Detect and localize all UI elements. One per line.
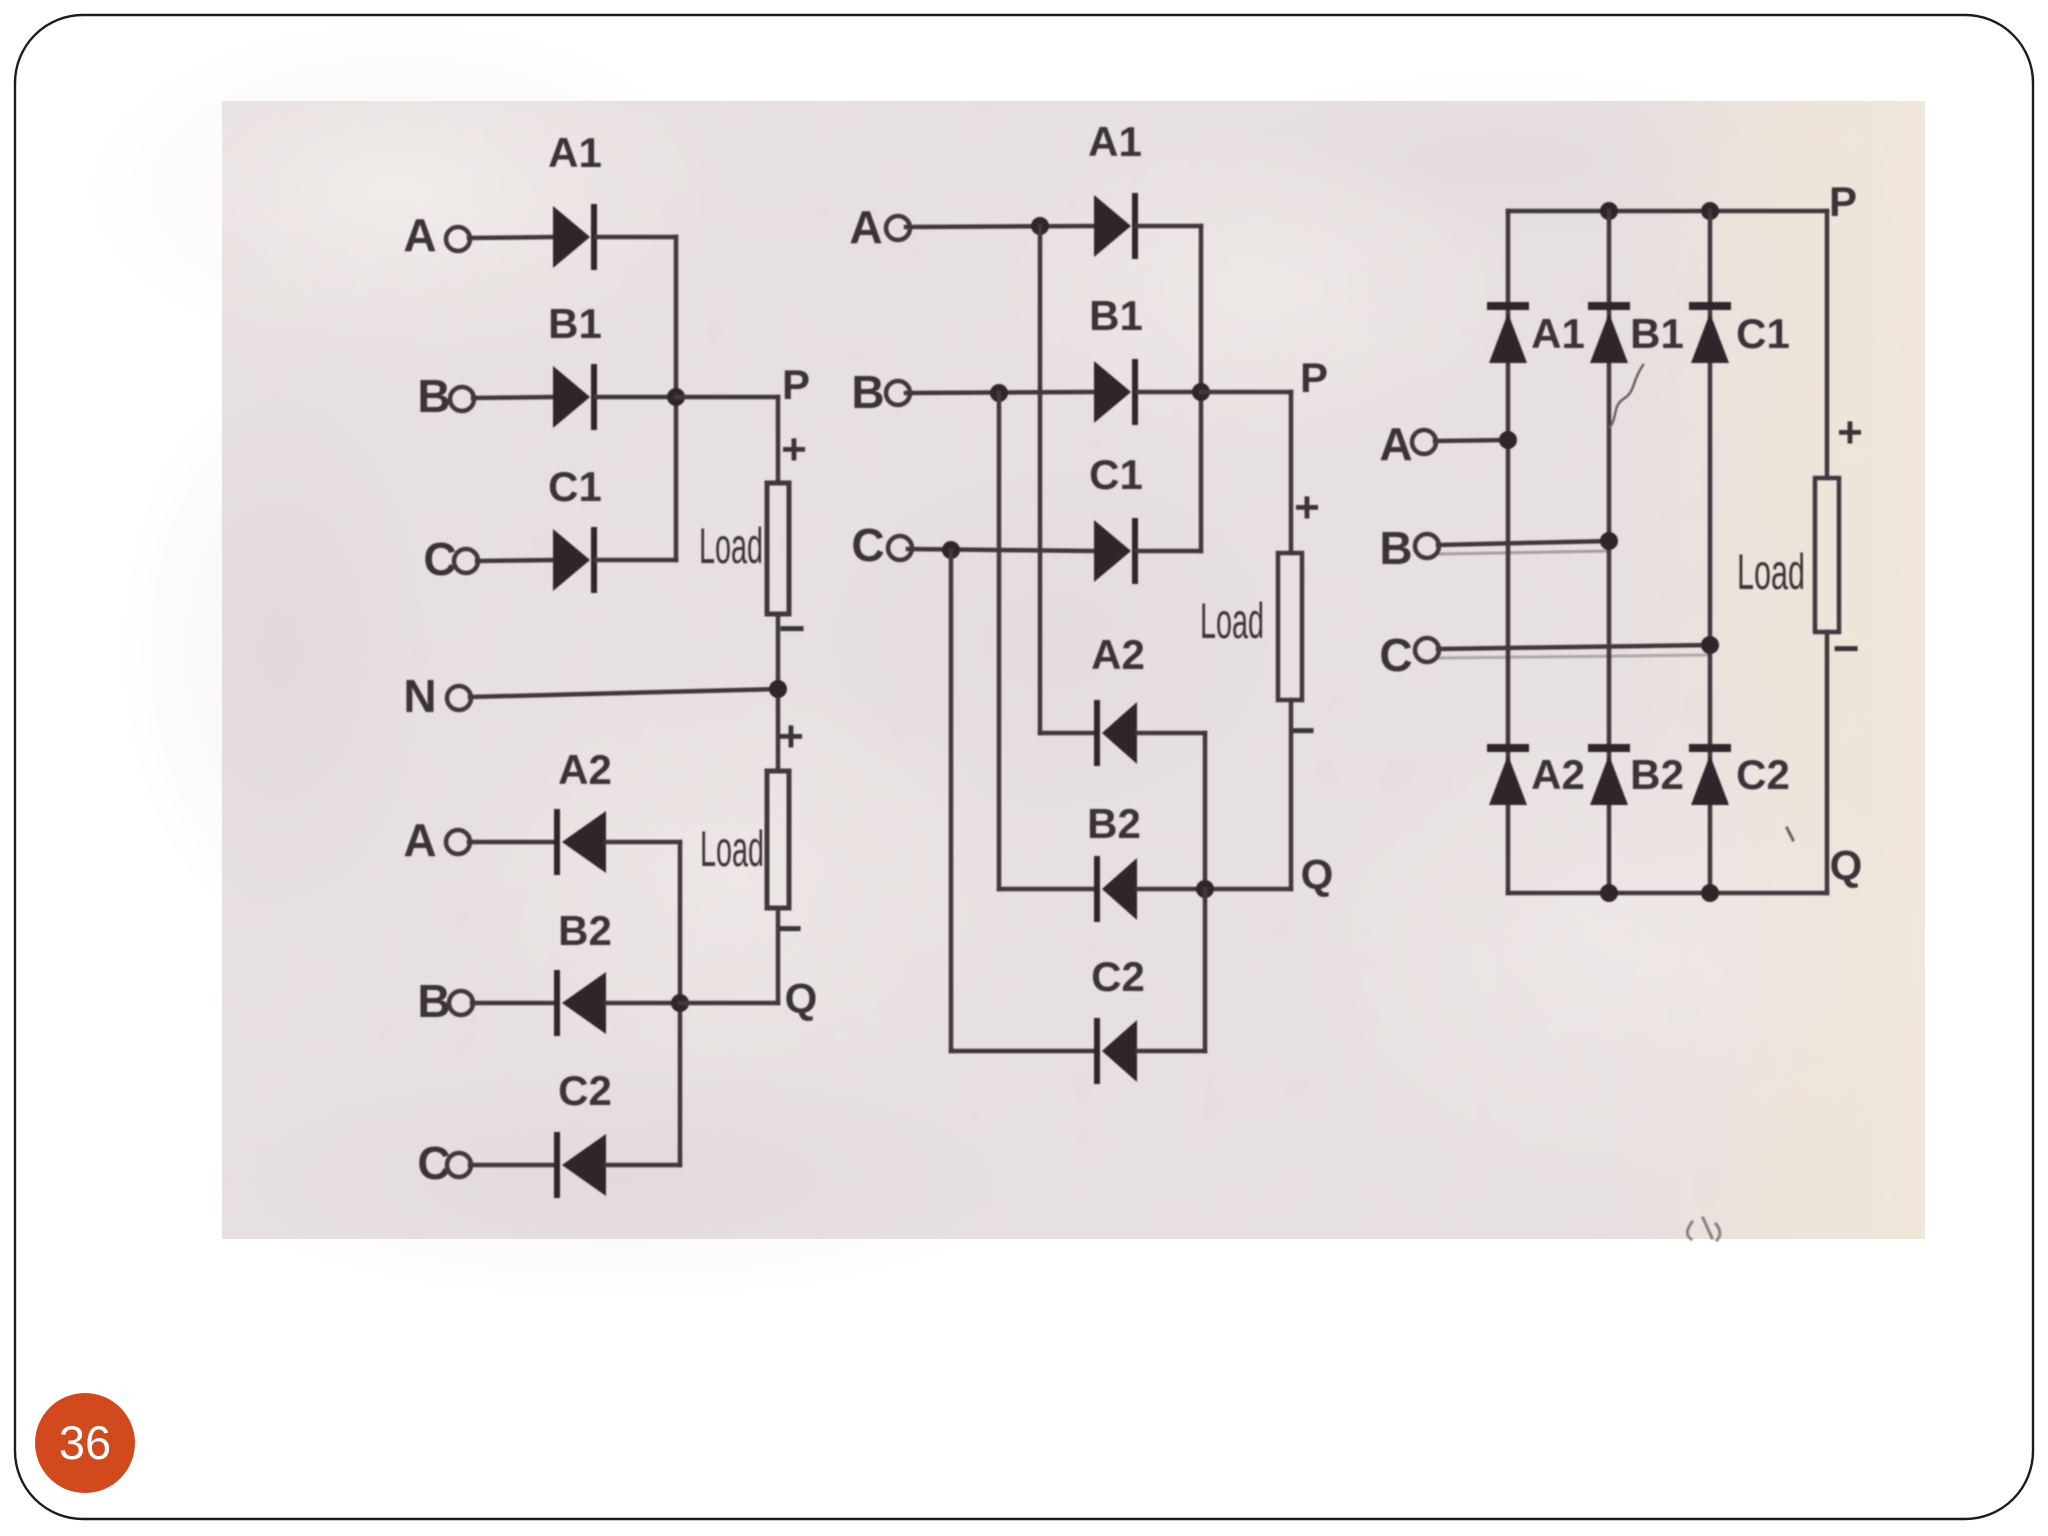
- svg-text:B: B: [1379, 522, 1412, 574]
- minus label (load 2): [776, 902, 803, 954]
- label A1 (right): [1531, 310, 1585, 357]
- svg-text:B: B: [417, 975, 450, 1027]
- label C1 (right): [1736, 310, 1790, 357]
- wire load bottom to bottom bus (right): [1825, 632, 1830, 893]
- svg-text:A: A: [403, 209, 436, 261]
- wire C2 anode to bus: [606, 1163, 680, 1168]
- svg-text:+: +: [778, 712, 804, 761]
- node Q label (middle): [1301, 851, 1334, 898]
- svg-text:−: −: [1833, 622, 1860, 674]
- wire B to diode B1: [473, 397, 553, 398]
- terminal A circle (right): [1412, 430, 1436, 454]
- svg-text:A: A: [1379, 418, 1412, 470]
- diode C1 (right): [1689, 302, 1731, 363]
- svg-text:+: +: [781, 425, 807, 474]
- svg-text:P: P: [1300, 354, 1328, 401]
- load 2 (lower): [767, 771, 789, 908]
- svg-text:C1: C1: [1089, 451, 1143, 498]
- diode C2: [554, 1132, 606, 1198]
- diode B1 (right): [1588, 302, 1630, 363]
- junction top bus dot C: [1701, 202, 1719, 220]
- diode B2 (right): [1588, 744, 1630, 805]
- wire C to column C: [1438, 645, 1710, 649]
- svg-text:Load: Load: [700, 821, 764, 877]
- wire C2 anode right (middle): [1137, 1049, 1205, 1054]
- node B (left, bottom group): [417, 975, 450, 1027]
- diode B2: [554, 970, 606, 1036]
- junction top bus dot B: [1600, 202, 1618, 220]
- plus label (load 1): [781, 425, 807, 474]
- wire P bus (middle): [1199, 226, 1204, 551]
- diode C1 (middle): [1094, 518, 1138, 584]
- node P label (middle): [1300, 354, 1328, 401]
- junction B branch dot: [990, 384, 1008, 402]
- svg-text:+: +: [1294, 483, 1320, 532]
- svg-text:C2: C2: [1736, 751, 1790, 798]
- terminal C circle: [888, 536, 912, 560]
- terminal B2 circle: [449, 991, 473, 1015]
- svg-text:A2: A2: [558, 746, 612, 793]
- wire P corner down to load 1: [776, 397, 781, 483]
- terminal B circle: [886, 381, 910, 405]
- svg-text:A1: A1: [1531, 310, 1585, 357]
- node A (left, top group): [403, 209, 436, 261]
- diode A1 (right): [1487, 302, 1529, 363]
- terminal N circle: [447, 686, 471, 710]
- node B (middle): [851, 366, 884, 418]
- svg-text:B2: B2: [1087, 800, 1141, 847]
- page number badge: [35, 1393, 135, 1493]
- wire B branch to diode B2 (middle): [999, 887, 1094, 892]
- wire C2 anode up to Q bus (middle): [1203, 889, 1208, 1051]
- junction P-bus dot: [667, 388, 685, 406]
- label B1 (right): [1630, 310, 1684, 357]
- svg-text:+: +: [1837, 408, 1863, 457]
- diode A2: [554, 809, 606, 875]
- wire C to diode C1: [477, 560, 553, 561]
- wire P bus to P corner (middle): [1201, 390, 1291, 395]
- wire A2 anode right (middle): [1137, 731, 1205, 736]
- diode A1 (middle): [1094, 193, 1138, 259]
- label B2 (middle): [1087, 800, 1141, 847]
- svg-text:Load: Load: [1200, 593, 1264, 649]
- svg-text:B2: B2: [1630, 751, 1684, 798]
- svg-text:P: P: [1829, 178, 1857, 225]
- wire P corner to load (middle): [1289, 392, 1294, 553]
- svg-text:C: C: [851, 519, 884, 571]
- node P label (right): [1829, 178, 1857, 225]
- wire A to diode A2: [469, 840, 554, 845]
- label Load (middle): [1200, 593, 1264, 649]
- svg-text:A1: A1: [1088, 118, 1142, 165]
- minus label (middle load): [1289, 704, 1316, 756]
- svg-text:36: 36: [59, 1416, 111, 1469]
- junction Q bus dot (middle): [1196, 880, 1214, 898]
- svg-text:Q: Q: [1301, 851, 1334, 898]
- wire Q corner to Q bus (middle): [1205, 887, 1291, 892]
- wire B1 cathode to P bus: [1137, 390, 1201, 395]
- svg-text:A2: A2: [1531, 751, 1585, 798]
- label Load (upper): [699, 518, 763, 574]
- wire column C (right): [1708, 211, 1713, 893]
- minus label (right load): [1833, 622, 1860, 674]
- label C2 (middle): [1091, 953, 1145, 1000]
- wire Q bus to Q corner: [680, 1001, 778, 1006]
- label A1: [548, 129, 602, 176]
- wire B1 cathode to bus: [596, 395, 676, 400]
- svg-text:B1: B1: [548, 300, 602, 347]
- wire column B (right): [1607, 211, 1612, 893]
- wire bottom bus (right): [1508, 891, 1827, 896]
- svg-text:B: B: [851, 366, 884, 418]
- scan figure mark at photo bottom: [1687, 1218, 1720, 1240]
- node Q label (right): [1830, 842, 1863, 889]
- svg-text:B: B: [417, 370, 450, 422]
- diode A2 (middle): [1094, 700, 1137, 766]
- svg-text:Load: Load: [699, 518, 763, 574]
- wire B to column B: [1438, 541, 1609, 545]
- wire A1 cathode to bus: [596, 235, 676, 240]
- wire cathode bus (top group): [674, 237, 679, 560]
- node A (right): [1379, 418, 1412, 470]
- scan tick mark below C2: [1787, 828, 1793, 840]
- svg-text:C1: C1: [1736, 310, 1790, 357]
- wire load1 bottom to load2 top: [776, 614, 781, 771]
- wire A to diode A1: [906, 226, 1094, 227]
- wire B branch down (middle): [997, 393, 1002, 889]
- label A1 (middle): [1088, 118, 1142, 165]
- svg-text:Q: Q: [1830, 842, 1863, 889]
- label A2 (right): [1531, 751, 1585, 798]
- plus label (load 2): [778, 712, 804, 761]
- wire B2 anode to Q bus (middle): [1137, 887, 1205, 892]
- junction C branch dot: [942, 541, 960, 559]
- wire A branch down (middle): [1038, 226, 1043, 733]
- node C (left, top group): [423, 533, 456, 585]
- diode A1: [553, 204, 597, 270]
- svg-text:Q: Q: [785, 975, 818, 1022]
- junction N dot: [769, 680, 787, 698]
- wire top bus (right): [1508, 209, 1827, 214]
- wire B to diode B2: [472, 1001, 554, 1006]
- svg-text:Load: Load: [1737, 544, 1805, 600]
- scanned photo background: [80, 20, 1940, 1300]
- terminal A circle: [446, 227, 470, 251]
- diode C2 (right): [1689, 744, 1731, 805]
- svg-text:C: C: [423, 533, 456, 585]
- wire anode bus (bottom group): [678, 842, 683, 1165]
- label B1: [548, 300, 602, 347]
- svg-text:N: N: [403, 670, 436, 722]
- load (right): [1815, 478, 1839, 632]
- label Load (right): [1737, 544, 1805, 600]
- svg-text:C1: C1: [548, 463, 602, 510]
- diode A2 (right): [1487, 744, 1529, 805]
- wire A2 anode to bus: [606, 840, 680, 845]
- wire C1 cathode to P bus: [1137, 549, 1201, 554]
- diode C1: [553, 527, 597, 593]
- wire B to diode B1: [906, 392, 1094, 393]
- junction A branch dot: [1031, 217, 1049, 235]
- junction Q-bus dot: [671, 994, 689, 1012]
- wire C branch down (middle): [949, 550, 954, 1051]
- wire B2 anode to bus: [606, 1001, 680, 1006]
- wire N to centre tap: [470, 689, 778, 697]
- node B (left, top group): [417, 370, 450, 422]
- junction A dot (right): [1499, 431, 1517, 449]
- wire ghost line (scan doubling, B row): [1440, 551, 1609, 554]
- node C (right): [1379, 629, 1412, 681]
- svg-text:A: A: [403, 814, 436, 866]
- node A (middle): [849, 201, 882, 253]
- diode B2 (middle): [1094, 856, 1137, 922]
- label B2 (right): [1630, 751, 1684, 798]
- wire bus to P corner: [676, 395, 778, 400]
- wire A1 cathode to P bus: [1137, 224, 1201, 229]
- terminal B circle (right): [1415, 534, 1439, 558]
- label Load (lower): [700, 821, 764, 877]
- svg-text:A: A: [849, 201, 882, 253]
- terminal C2 circle: [447, 1153, 471, 1177]
- svg-text:C2: C2: [1091, 953, 1145, 1000]
- wire load bottom to Q corner (middle): [1289, 700, 1294, 889]
- node P label: [782, 361, 810, 408]
- diode B1: [553, 364, 597, 430]
- label C2: [558, 1067, 612, 1114]
- wire C to diode C1: [908, 549, 1094, 551]
- junction bottom bus dot C: [1701, 884, 1719, 902]
- junction bottom bus dot B: [1600, 884, 1618, 902]
- node C (left, bottom group): [417, 1137, 450, 1189]
- svg-text:B2: B2: [558, 907, 612, 954]
- wire ghost line (scan doubling, C row): [1440, 655, 1710, 658]
- svg-text:−: −: [779, 602, 806, 654]
- wire column A (right): [1506, 211, 1511, 893]
- terminal C circle: [454, 549, 478, 573]
- wire A to diode A1: [469, 237, 553, 238]
- node N (neutral): [403, 670, 436, 722]
- svg-text:P: P: [782, 361, 810, 408]
- node C (middle): [851, 519, 884, 571]
- label A2 (middle): [1091, 631, 1145, 678]
- svg-text:C2: C2: [558, 1067, 612, 1114]
- label B1 (middle): [1089, 292, 1143, 339]
- svg-text:B1: B1: [1630, 310, 1684, 357]
- node A (left, bottom group): [403, 814, 436, 866]
- svg-text:C: C: [1379, 629, 1412, 681]
- node B (right): [1379, 522, 1412, 574]
- terminal C circle (right): [1415, 638, 1439, 662]
- label C2 (right): [1736, 751, 1790, 798]
- terminal B circle: [450, 387, 474, 411]
- junction B dot (right): [1600, 532, 1618, 550]
- load (middle): [1278, 553, 1302, 700]
- node Q label: [785, 975, 818, 1022]
- junction C dot (right): [1701, 636, 1719, 654]
- wire C to diode C2: [470, 1163, 554, 1168]
- wire C1 cathode to bus: [596, 558, 676, 563]
- wire A branch to diode A2 (middle): [1040, 731, 1094, 736]
- diode B1 (middle): [1094, 359, 1138, 425]
- terminal A circle: [886, 216, 910, 240]
- wire load2 bottom to Q corner: [776, 908, 781, 1003]
- label C1: [548, 463, 602, 510]
- load 1 (upper): [767, 483, 789, 614]
- minus label (load 1): [779, 602, 806, 654]
- wire C branch to diode C2 (middle): [951, 1049, 1094, 1054]
- diode C2 (middle): [1094, 1018, 1137, 1084]
- label B2: [558, 907, 612, 954]
- plus label (right load): [1837, 408, 1863, 457]
- junction P bus dot: [1192, 383, 1210, 401]
- wire A2 anode down to Q bus (middle): [1203, 733, 1208, 889]
- plus label (middle load): [1294, 483, 1320, 532]
- svg-text:B1: B1: [1089, 292, 1143, 339]
- label C1 (middle): [1089, 451, 1143, 498]
- terminal A2 circle: [446, 830, 470, 854]
- scan scratch mark near B1: [1610, 365, 1643, 427]
- svg-text:A1: A1: [548, 129, 602, 176]
- wire A to column A: [1435, 440, 1508, 441]
- svg-text:A2: A2: [1091, 631, 1145, 678]
- wire top bus to load (right): [1825, 211, 1830, 478]
- label A2: [558, 746, 612, 793]
